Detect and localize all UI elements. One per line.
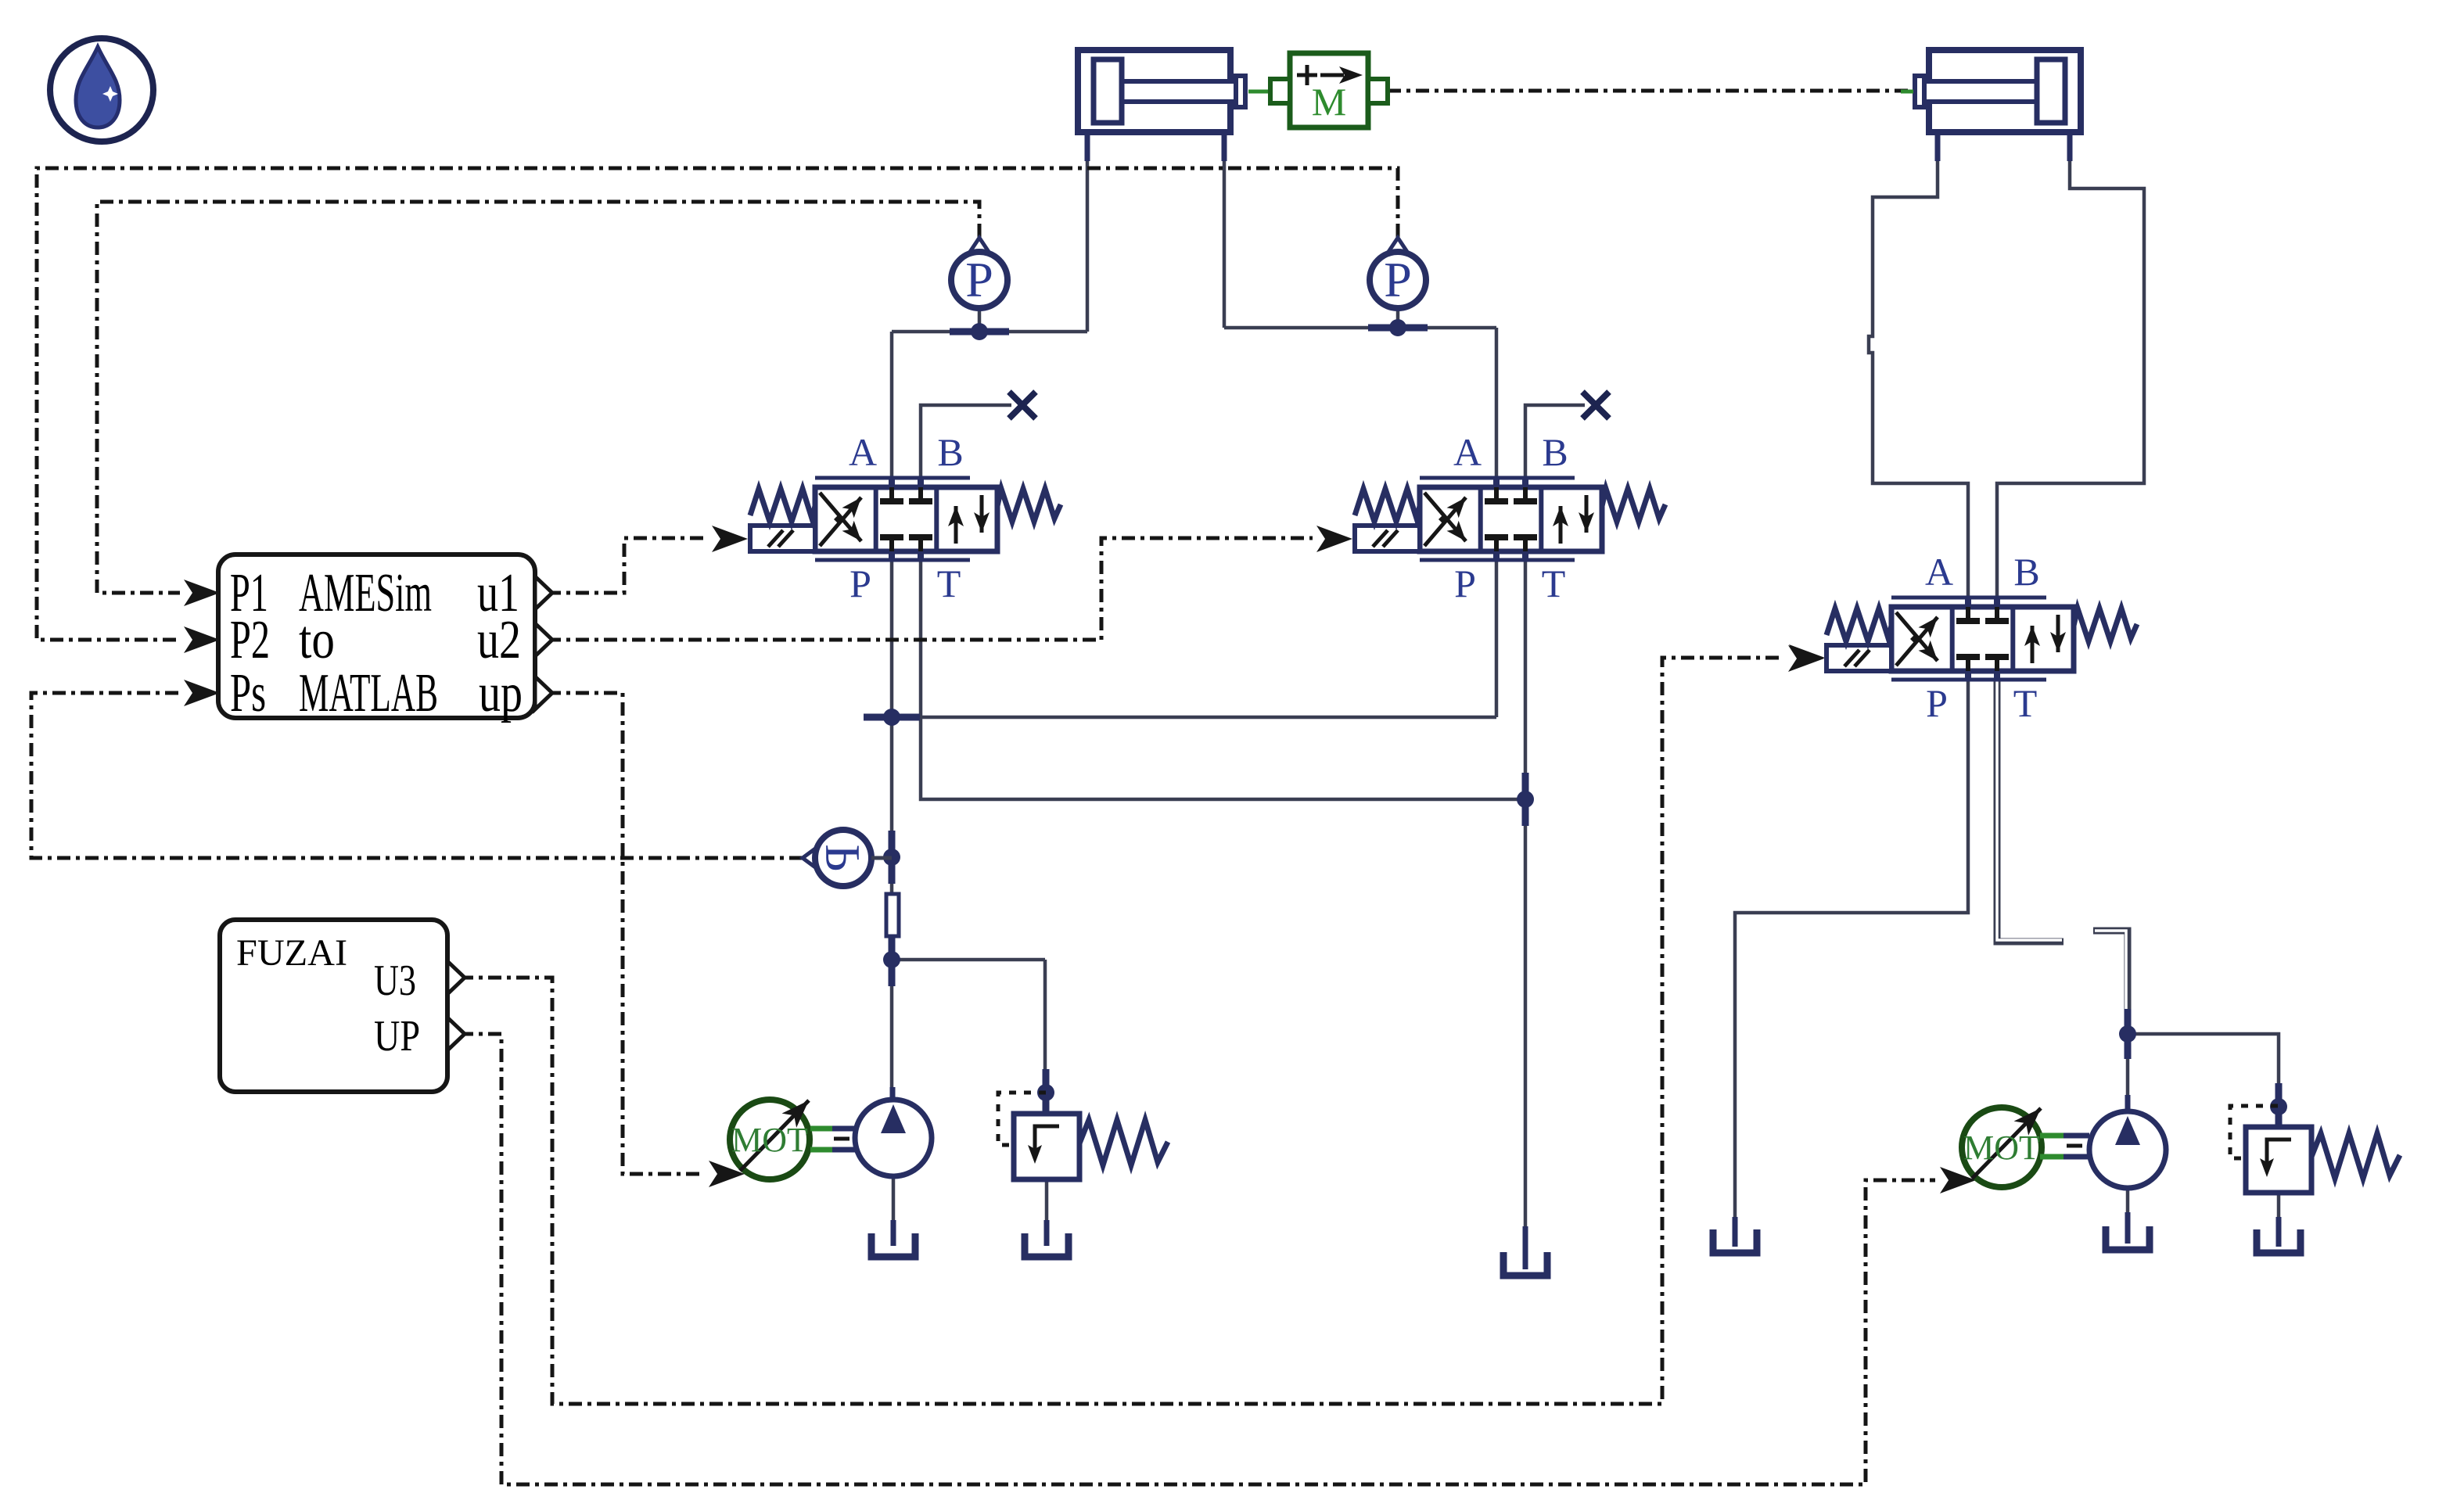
svg-text:U3: U3: [374, 956, 416, 1005]
svg-text:MATLAB: MATLAB: [299, 663, 438, 723]
svg-text:u2: u2: [477, 610, 521, 670]
svg-text:Ps: Ps: [230, 663, 266, 723]
svg-text:P: P: [814, 844, 870, 872]
svg-text:to: to: [299, 610, 335, 670]
svg-text:FUZAI: FUZAI: [236, 932, 347, 974]
svg-text:M: M: [1312, 80, 1346, 124]
svg-text:UP: UP: [374, 1012, 420, 1061]
svg-text:up: up: [479, 663, 523, 723]
svg-text:P2: P2: [230, 610, 270, 670]
